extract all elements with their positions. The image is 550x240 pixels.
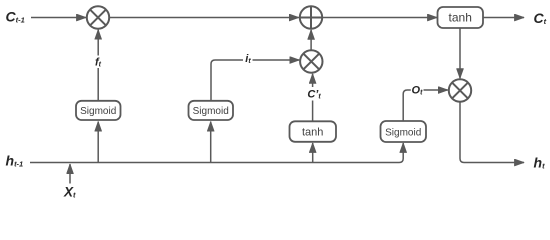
svg-text:Sigmoid: Sigmoid: [385, 127, 421, 138]
svg-text:Xt: Xt: [63, 184, 76, 199]
svg-text:ht: ht: [534, 154, 546, 170]
svg-text:tanh: tanh: [302, 127, 323, 139]
svg-text:Ct-1: Ct-1: [6, 9, 25, 25]
svg-text:Sigmoid: Sigmoid: [80, 106, 116, 117]
svg-text:tanh: tanh: [449, 11, 472, 25]
svg-text:Ct: Ct: [534, 10, 547, 26]
svg-text:Sigmoid: Sigmoid: [193, 106, 229, 117]
svg-text:ht-1: ht-1: [6, 153, 24, 169]
